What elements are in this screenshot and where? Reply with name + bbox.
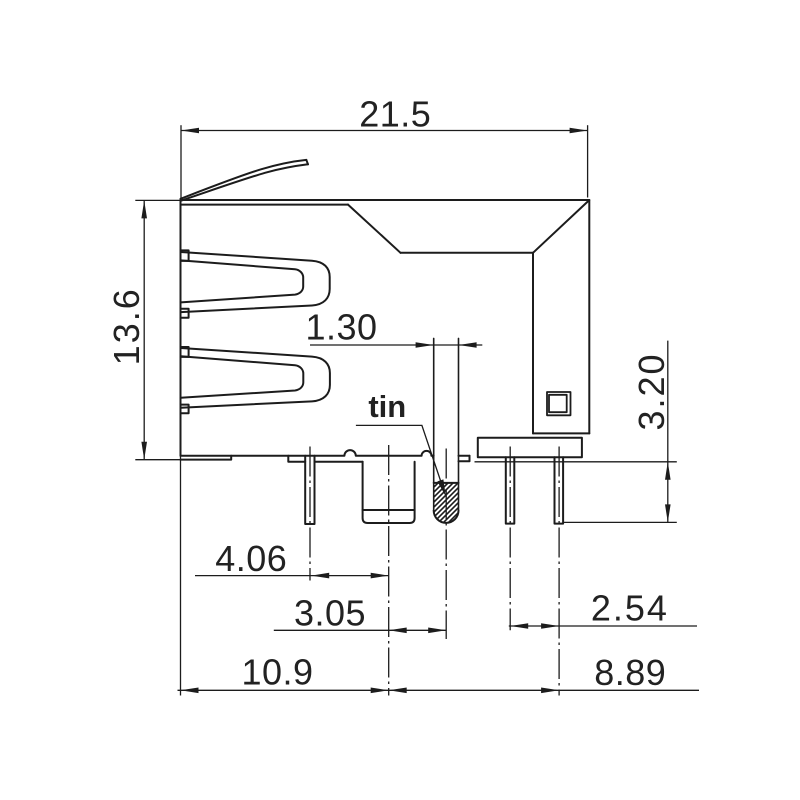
shield flange: [478, 438, 582, 458]
standoff strip: [181, 456, 232, 460]
contact spring 2 lower end cap: [181, 405, 189, 414]
body right edge: [588, 200, 590, 433]
svg-text:21.5: 21.5: [359, 93, 431, 134]
dimension 3.05: [274, 629, 446, 631]
pin 4 centerline: [558, 447, 560, 696]
svg-text:3.20: 3.20: [631, 352, 672, 430]
body top edge: [181, 199, 590, 201]
body bottom edge with locating bumps: [181, 450, 470, 456]
tin pin rounded bottom: [434, 511, 459, 523]
tin label and leader arrow: [356, 425, 443, 488]
svg-text:8.89: 8.89: [594, 652, 666, 693]
tin pin sides (also 1.30 extension lines): [434, 338, 459, 510]
pin 1 centerline: [309, 447, 311, 581]
step block: [288, 456, 305, 462]
plastic post: [363, 462, 415, 523]
body top inner edge: [182, 204, 349, 206]
latch spring upper curve: [181, 160, 307, 199]
pin tip extension line: [563, 521, 677, 523]
tin pin centerline: [445, 449, 447, 640]
svg-text:4.06: 4.06: [215, 538, 287, 579]
dimension 2.54: [509, 625, 697, 627]
bottom rail line: [315, 461, 363, 463]
latch spring tip: [306, 160, 308, 164]
svg-text:13.6: 13.6: [106, 287, 147, 365]
pin 3 centerline: [509, 447, 511, 631]
tin pin hatch: [386, 470, 516, 530]
contact spring 1 outer contour: [181, 252, 330, 312]
contact spring 2 upper end cap: [181, 347, 189, 357]
body left edge: [180, 200, 182, 456]
shield window inner square: [549, 395, 567, 412]
body left edge extension line: [180, 456, 182, 696]
contact spring 2 outer contour: [181, 348, 330, 408]
post centerline: [388, 445, 390, 696]
dimension 21.5: [181, 125, 588, 199]
seating plane line: [475, 461, 677, 463]
pin 4: [555, 457, 564, 523]
shield window outer square: [547, 392, 571, 415]
body front top edge: [401, 252, 534, 254]
dimension 3.20: [667, 341, 669, 523]
pin 1: [305, 456, 314, 524]
contact spring 1 lower end cap: [181, 309, 189, 318]
svg-text:10.9: 10.9: [241, 652, 313, 693]
body chamfer diagonal left: [348, 205, 401, 253]
svg-text:3.05: 3.05: [294, 592, 366, 633]
dimension 10.9 and 8.89 chain: [178, 689, 700, 691]
svg-text:2.54: 2.54: [591, 587, 669, 628]
svg-text:tin: tin: [368, 389, 406, 424]
dimension 4.06: [195, 575, 389, 577]
body chamfer diagonal right: [533, 201, 588, 253]
contact spring 1 inner slot: [181, 260, 303, 302]
svg-text:1.30: 1.30: [305, 307, 377, 348]
dimension 1.30: [310, 344, 482, 346]
contact spring 2 inner slot: [181, 356, 303, 397]
dimension 13.6: [135, 200, 180, 459]
pin 3: [506, 457, 515, 523]
shield inner vertical edge: [532, 253, 534, 434]
right step tab: [459, 456, 470, 461]
tin pin plating boundary: [434, 482, 459, 484]
contact spring 1 upper end cap: [181, 250, 189, 261]
latch spring lower curve: [181, 164, 309, 201]
shield bottom right edge: [533, 432, 589, 434]
plastic post step line: [363, 509, 415, 511]
